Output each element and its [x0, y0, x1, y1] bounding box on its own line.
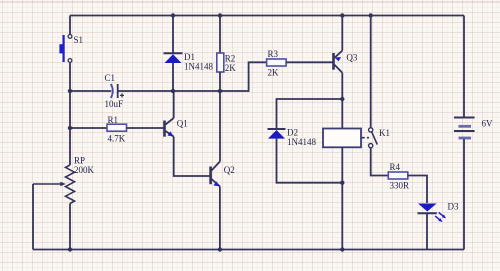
- wire R2 bottom to junction row: [219, 72, 221, 91]
- junction D1 bottom node: [171, 89, 175, 93]
- diode D2 1N4148: [268, 128, 317, 148]
- potentiometer RP: [33, 156, 95, 204]
- svg-text:R3: R3: [268, 49, 279, 59]
- svg-text:10uF: 10uF: [105, 99, 124, 109]
- wire K1 contact to R4: [371, 148, 389, 176]
- switch S1: [59, 35, 83, 63]
- svg-text:1N4148: 1N4148: [287, 137, 316, 147]
- junction top rail at K1: [369, 13, 373, 17]
- wire battery top branch: [463, 16, 465, 118]
- junction bottom rail at Q2: [218, 247, 222, 251]
- wire C1 row left: [70, 90, 111, 92]
- wire R2 junction right then up to R3: [220, 62, 267, 91]
- resistor R1: [107, 115, 127, 144]
- svg-text:4.7K: 4.7K: [108, 134, 126, 144]
- svg-text:330R: 330R: [390, 181, 410, 191]
- svg-text:K1: K1: [379, 128, 390, 138]
- junction Q3 collector node: [340, 97, 344, 101]
- wire C1 to D1 junction: [119, 90, 174, 92]
- junction relay bottom / D2 node: [340, 181, 344, 185]
- svg-text:6V: 6V: [482, 119, 494, 129]
- transistor Q2: [211, 162, 235, 187]
- resistor R2: [217, 53, 237, 73]
- junction top rail at D1: [171, 13, 175, 17]
- wire Q1 collector up to junction: [173, 91, 175, 118]
- junction top rail at R2: [218, 13, 222, 17]
- svg-text:S1: S1: [74, 35, 84, 45]
- wire K1 contact from top rail: [370, 16, 372, 128]
- wire D1 to junction row: [172, 63, 174, 91]
- junction left bus at R1 row: [68, 126, 72, 130]
- wire S1 top to rail: [69, 16, 71, 35]
- wire Q1 emitter down and right to Q2 base: [174, 137, 210, 176]
- diode D1 1N4148: [164, 52, 214, 71]
- svg-text:C1: C1: [105, 73, 116, 83]
- wire RP wiper to bottom rail: [32, 184, 34, 250]
- svg-text:Q1: Q1: [177, 119, 188, 129]
- wire node to D2 top: [277, 99, 343, 129]
- wire Q3 emitter up to top rail: [341, 16, 343, 51]
- transistor Q1: [165, 118, 188, 137]
- wire R3 to Q3 base: [286, 61, 333, 63]
- svg-text:Q3: Q3: [346, 53, 357, 63]
- wire battery bottom to bottom rail: [463, 139, 465, 250]
- wire RP bottom to bottom rail: [69, 204, 71, 250]
- wire R4 to D3: [408, 176, 427, 204]
- wire relay coil bottom to bottom rail: [341, 147, 343, 249]
- junction bottom rail at left bus: [68, 247, 72, 251]
- svg-text:R4: R4: [390, 162, 401, 172]
- junction top rail at Q3: [340, 13, 344, 17]
- junction left bus at C1 row: [68, 89, 72, 93]
- resistor R4: [388, 162, 409, 191]
- resistor R3: [267, 49, 287, 78]
- LED D3: [418, 202, 459, 223]
- capacitor C1: [105, 73, 125, 109]
- wire bottom rail: [33, 249, 464, 251]
- relay K1 coil: [323, 129, 369, 148]
- wire D1 junction to R2 junction: [173, 90, 220, 92]
- wire R1 row left: [70, 127, 107, 129]
- svg-text:Q2: Q2: [224, 165, 235, 175]
- battery 6V: [454, 118, 493, 139]
- svg-text:R1: R1: [108, 115, 119, 125]
- wire R1 to Q1 base: [127, 127, 165, 129]
- svg-text:1N4148: 1N4148: [184, 61, 213, 71]
- wire D2 bottom to relay bottom node: [277, 139, 343, 183]
- junction R2 bottom node: [218, 89, 222, 93]
- svg-text:D2: D2: [287, 128, 298, 138]
- svg-text:200K: 200K: [74, 165, 95, 175]
- wire D1 branch from top rail: [172, 16, 174, 54]
- svg-text:D3: D3: [448, 202, 459, 212]
- wire R2 junction down to Q2 collector: [219, 91, 221, 162]
- wire Q3 collector down to node: [341, 73, 343, 99]
- wire left bus (S1 bottom down to RP top): [69, 63, 71, 165]
- transistor Q3: [334, 51, 358, 73]
- svg-text:2K: 2K: [268, 68, 280, 78]
- junction bottom rail at relay: [340, 247, 344, 251]
- wire Q2 emitter to bottom rail: [219, 186, 221, 249]
- svg-text:2K: 2K: [225, 63, 237, 73]
- wire top rail: [70, 15, 464, 17]
- wire relay coil top branch: [341, 99, 343, 129]
- wire R2 branch from top rail: [219, 16, 221, 54]
- wire D3 to bottom rail: [426, 213, 428, 249]
- relay contact K1: [369, 128, 390, 148]
